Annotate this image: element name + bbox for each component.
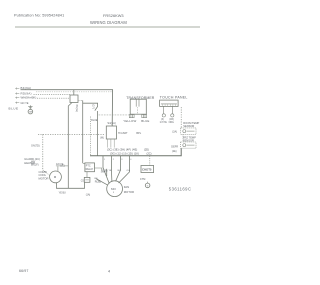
svg-text:FAN: FAN (124, 185, 129, 189)
svg-text:OG: OG (127, 170, 131, 172)
svg-text:(2D): (2D) (144, 148, 149, 152)
svg-text:BK(9A): BK(9A) (21, 86, 32, 90)
svg-text:MOTOR: MOTOR (124, 190, 134, 194)
svg-text:GUARD (2C): GUARD (2C) (24, 157, 40, 161)
svg-text:G: G (147, 185, 149, 187)
svg-text:CS: CS (81, 180, 85, 182)
svg-text:CHGT5: CHGT5 (142, 167, 152, 171)
svg-text:ORG: ORG (169, 122, 174, 124)
svg-text:YE BU: YE BU (59, 192, 66, 195)
svg-text:R(2B): R(2B) (95, 180, 101, 183)
svg-text:TRANSFORMER: TRANSFORMER (126, 96, 154, 100)
svg-text:GN(7D): GN(7D) (31, 144, 40, 147)
svg-text:Publication No: 5995424841: Publication No: 5995424841 (14, 14, 64, 18)
svg-text:(2E): (2E) (172, 150, 177, 153)
svg-text:(2A): (2A) (172, 130, 177, 133)
svg-text:GY/YE: GY/YE (160, 122, 167, 124)
svg-text:2: 2 (113, 159, 115, 161)
svg-text:CTM: CTM (140, 178, 145, 181)
svg-text:BLUE: BLUE (141, 119, 149, 123)
svg-text:BLUE: BLUE (91, 120, 97, 122)
svg-text:(3G) (1J) (1I) (1D) (1K): (3G) (1J) (1I) (1D) (1K) (110, 152, 139, 156)
svg-text:WH(9A+BK): WH(9A+BK) (21, 96, 37, 100)
svg-text:66/97: 66/97 (19, 269, 29, 273)
svg-text:5361169C: 5361169C (169, 186, 192, 191)
svg-text:RELAY: RELAY (86, 168, 94, 171)
svg-text:BK(1E): BK(1E) (75, 105, 77, 113)
svg-text:4: 4 (130, 159, 132, 161)
svg-text:HEATER: HEATER (24, 161, 35, 165)
svg-text:DEFR: DEFR (171, 146, 178, 149)
svg-text:HI LIMIT: HI LIMIT (118, 132, 128, 135)
svg-text:WIRING DIAGRAM: WIRING DIAGRAM (90, 20, 127, 25)
svg-text:BU: BU (118, 170, 121, 172)
svg-text:(1C): (1C) (60, 166, 65, 168)
svg-text:(1B): (1B) (169, 119, 174, 121)
svg-text:Y(1B): Y(1B) (102, 171, 108, 173)
svg-text:MO: MO (111, 187, 116, 191)
svg-text:GN YE: GN YE (21, 101, 29, 105)
svg-text:3: 3 (121, 159, 123, 161)
svg-text:SENSOR: SENSOR (183, 124, 194, 128)
svg-text:(1A): (1A) (86, 193, 91, 196)
svg-text:SENSOR: SENSOR (183, 139, 194, 143)
svg-text:M: M (54, 175, 57, 179)
svg-text:1: 1 (104, 159, 106, 161)
svg-text:(M): (M) (100, 136, 104, 139)
svg-text:TOUCH PANEL: TOUCH PANEL (160, 95, 188, 99)
svg-text:(3C) (3E) (3H) (4F) (4E): (3C) (3E) (3H) (4F) (4E) (107, 148, 137, 152)
svg-text:FRS26KW3: FRS26KW3 (103, 13, 124, 18)
svg-text:(1F): (1F) (91, 105, 93, 109)
svg-text:(2C): (2C) (147, 152, 152, 156)
svg-text:S4(1A): S4(1A) (107, 121, 115, 125)
svg-text:4: 4 (108, 270, 110, 274)
svg-text:(3): (3) (161, 119, 164, 121)
svg-text:MOTOR: MOTOR (39, 176, 49, 180)
svg-text:YELLOW: YELLOW (123, 119, 136, 123)
svg-text:BLUE: BLUE (9, 106, 19, 110)
svg-text:BPL: BPL (136, 132, 141, 135)
svg-text:3: 3 (113, 192, 115, 194)
svg-text:GN: GN (29, 112, 33, 114)
